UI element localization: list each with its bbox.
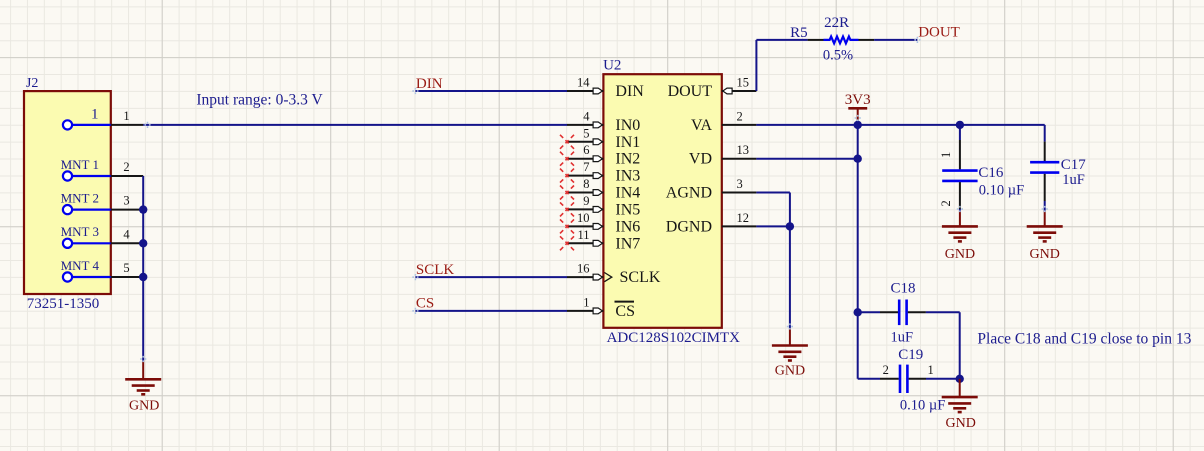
svg-text:MNT 4: MNT 4 — [61, 258, 100, 273]
svg-text:Place C18 and C19 close to pin: Place C18 and C19 close to pin 13 — [977, 331, 1191, 348]
svg-text:DIN: DIN — [615, 83, 644, 100]
svg-text:11: 11 — [577, 228, 589, 242]
svg-text:9: 9 — [583, 194, 589, 208]
svg-text:3V3: 3V3 — [845, 92, 871, 108]
svg-text:0.10 µF: 0.10 µF — [979, 183, 1024, 199]
svg-text:IN5: IN5 — [615, 201, 640, 218]
svg-text:7: 7 — [583, 160, 589, 174]
svg-text:VA: VA — [691, 117, 712, 134]
svg-text:C17: C17 — [1061, 157, 1087, 173]
svg-text:GND: GND — [1030, 247, 1060, 262]
svg-text:2: 2 — [883, 363, 889, 377]
svg-text:0.5%: 0.5% — [823, 47, 853, 63]
svg-text:MNT 1: MNT 1 — [61, 157, 99, 172]
svg-text:1: 1 — [91, 106, 99, 122]
svg-text:13: 13 — [737, 143, 750, 157]
svg-text:GND: GND — [945, 247, 975, 262]
svg-text:SCLK: SCLK — [416, 262, 455, 278]
svg-text:22R: 22R — [824, 15, 849, 31]
svg-text:1: 1 — [123, 109, 129, 123]
svg-text:MNT 3: MNT 3 — [61, 224, 99, 239]
svg-text:AGND: AGND — [666, 185, 712, 202]
svg-text:CS: CS — [615, 303, 635, 320]
svg-text:2: 2 — [123, 160, 129, 174]
svg-text:16: 16 — [577, 262, 590, 276]
svg-text:6: 6 — [583, 143, 589, 157]
svg-text:C18: C18 — [891, 281, 916, 297]
svg-text:R5: R5 — [790, 25, 808, 41]
svg-text:14: 14 — [577, 76, 590, 90]
svg-text:Input range: 0-3.3 V: Input range: 0-3.3 V — [196, 92, 323, 109]
svg-text:GND: GND — [129, 399, 159, 414]
svg-text:IN4: IN4 — [615, 185, 640, 202]
svg-text:2: 2 — [737, 109, 743, 123]
svg-text:5: 5 — [123, 261, 129, 275]
svg-text:15: 15 — [737, 76, 750, 90]
svg-text:4: 4 — [123, 227, 130, 241]
svg-text:IN0: IN0 — [615, 117, 640, 134]
svg-text:MNT 2: MNT 2 — [61, 190, 99, 205]
svg-text:1: 1 — [583, 295, 589, 309]
svg-text:GND: GND — [946, 416, 976, 431]
svg-text:ADC128S102CIMTX: ADC128S102CIMTX — [607, 330, 741, 346]
svg-text:1: 1 — [939, 152, 953, 158]
svg-text:IN7: IN7 — [615, 235, 640, 252]
svg-text:3: 3 — [123, 194, 129, 208]
svg-text:DOUT: DOUT — [668, 83, 713, 100]
svg-text:73251-1350: 73251-1350 — [27, 296, 100, 312]
svg-text:5: 5 — [583, 126, 589, 140]
svg-text:J2: J2 — [26, 76, 38, 91]
svg-text:DOUT: DOUT — [918, 24, 960, 40]
svg-text:C16: C16 — [978, 165, 1004, 181]
svg-text:1uF: 1uF — [891, 330, 914, 346]
svg-text:3: 3 — [737, 177, 743, 191]
svg-text:2: 2 — [939, 200, 953, 206]
svg-text:VD: VD — [689, 151, 712, 168]
svg-text:8: 8 — [583, 177, 589, 191]
svg-text:GND: GND — [775, 364, 805, 379]
svg-text:U2: U2 — [603, 58, 621, 74]
svg-text:IN2: IN2 — [615, 151, 640, 168]
svg-text:IN1: IN1 — [615, 134, 640, 151]
svg-text:IN6: IN6 — [615, 218, 640, 235]
svg-text:10: 10 — [577, 211, 590, 225]
svg-text:C19: C19 — [898, 347, 923, 363]
svg-text:DGND: DGND — [666, 218, 712, 235]
svg-text:CS: CS — [416, 296, 434, 312]
svg-text:1: 1 — [928, 363, 934, 377]
svg-text:IN3: IN3 — [615, 168, 640, 185]
svg-text:12: 12 — [737, 211, 750, 225]
svg-text:SCLK: SCLK — [620, 269, 661, 286]
svg-text:1uF: 1uF — [1062, 172, 1085, 188]
svg-text:4: 4 — [583, 109, 590, 123]
svg-text:0.10 µF: 0.10 µF — [900, 398, 945, 414]
svg-text:DIN: DIN — [416, 76, 443, 92]
